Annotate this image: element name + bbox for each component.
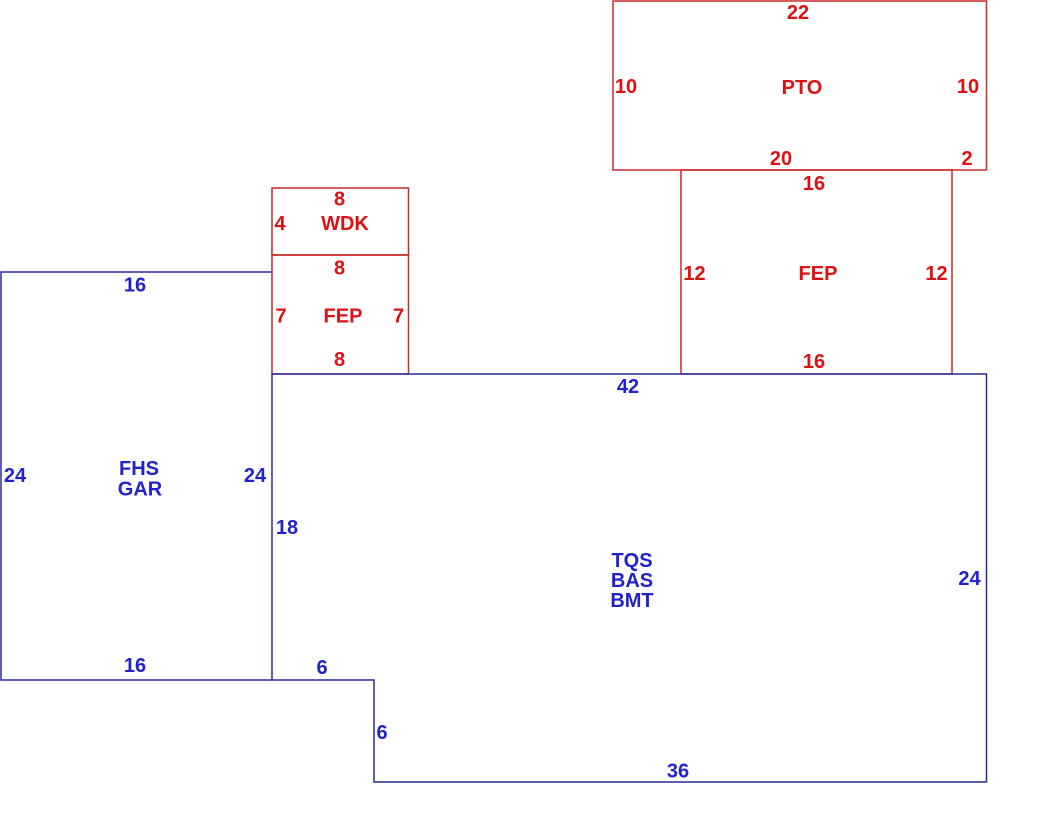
svg-text:24: 24 — [244, 465, 267, 487]
FEP enclosed porch outline (right) — [681, 170, 952, 374]
svg-text:16: 16 — [803, 173, 825, 195]
svg-text:8: 8 — [334, 349, 345, 371]
svg-text:16: 16 — [124, 275, 146, 297]
svg-text:24: 24 — [4, 465, 27, 487]
svg-text:10: 10 — [957, 76, 979, 98]
svg-text:7: 7 — [275, 306, 286, 328]
svg-text:GAR: GAR — [118, 479, 163, 501]
svg-text:FEP: FEP — [799, 263, 838, 285]
svg-text:FHS: FHS — [119, 458, 159, 480]
svg-text:PTO: PTO — [782, 77, 823, 99]
svg-text:16: 16 — [803, 351, 825, 373]
svg-text:4: 4 — [274, 213, 286, 235]
svg-text:18: 18 — [276, 517, 298, 539]
svg-text:24: 24 — [958, 568, 981, 590]
svg-text:8: 8 — [334, 258, 345, 280]
PTO patio outline — [613, 1, 987, 170]
svg-text:BMT: BMT — [610, 590, 653, 612]
svg-text:10: 10 — [615, 76, 637, 98]
svg-text:8: 8 — [334, 189, 345, 211]
svg-text:WDK: WDK — [321, 213, 369, 235]
svg-text:42: 42 — [617, 376, 639, 398]
FHS/GAR garage outline — [1, 272, 272, 680]
WDK wood deck outline — [272, 188, 409, 255]
svg-text:22: 22 — [787, 2, 809, 24]
svg-text:12: 12 — [925, 263, 947, 285]
svg-text:20: 20 — [770, 148, 792, 170]
svg-text:2: 2 — [961, 148, 972, 170]
svg-text:12: 12 — [683, 263, 705, 285]
svg-text:7: 7 — [393, 306, 404, 328]
svg-text:FEP: FEP — [324, 306, 363, 328]
svg-text:TQS: TQS — [611, 550, 652, 572]
svg-text:6: 6 — [376, 722, 387, 744]
TQS/BAS/BMT main dwelling outline — [272, 374, 987, 782]
svg-text:BAS: BAS — [611, 570, 653, 592]
svg-text:6: 6 — [316, 657, 327, 679]
svg-text:36: 36 — [667, 761, 689, 783]
svg-text:16: 16 — [124, 655, 146, 677]
FEP enclosed porch outline (small, left) — [272, 255, 409, 374]
